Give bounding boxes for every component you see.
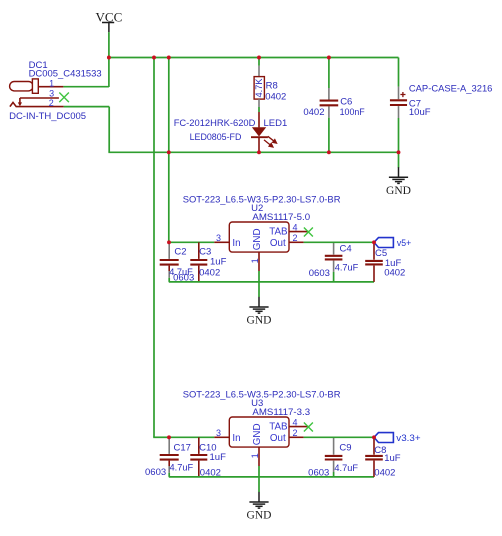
wire R8 to LED1 (258, 107, 260, 112)
wire VCC branch corner to U3 input (153, 436, 169, 438)
svg-text:3: 3 (216, 428, 221, 438)
svg-text:Out: Out (270, 238, 286, 249)
power flag VCC (96, 9, 123, 32)
svg-text:TAB: TAB (269, 422, 288, 433)
svg-text:0402: 0402 (303, 107, 324, 118)
svg-text:GND: GND (386, 185, 411, 197)
capacitor C17 (168, 439, 170, 477)
wire pin1 to ground U3 (258, 466, 260, 492)
wire top VCC bus (108, 57, 399, 59)
node bottom bus x169 (167, 150, 171, 154)
svg-text:TAB: TAB (269, 227, 288, 238)
svg-text:1: 1 (49, 78, 54, 88)
svg-text:AMS1117-5.0: AMS1117-5.0 (252, 212, 310, 223)
wire VCC branch to U2 input (168, 58, 170, 243)
pin 3 DC1 (20, 97, 59, 99)
capacitor C9 (333, 437, 335, 477)
svg-text:0402: 0402 (199, 268, 220, 279)
ground GND U2 (249, 297, 268, 313)
capacitor C4 (333, 242, 335, 282)
svg-text:2: 2 (49, 98, 54, 108)
wire bottom bus (108, 151, 398, 153)
wire pin1 to ground U2 (258, 271, 260, 297)
svg-text:0402: 0402 (200, 467, 221, 478)
svg-text:10uF: 10uF (409, 107, 431, 118)
svg-text:0603: 0603 (145, 467, 166, 478)
wire C7 to ground (398, 152, 400, 167)
node VCC bus left (107, 56, 111, 60)
node input U3 (167, 435, 171, 439)
svg-text:1uF: 1uF (210, 452, 227, 463)
capacitor C7 polarized (398, 58, 400, 153)
node VCC bus C6 (327, 56, 331, 60)
wire ground rail U2 (169, 281, 374, 283)
ground GND U3 (249, 492, 268, 508)
pin 3 In U3 (214, 436, 229, 438)
voltage regulator U3 body (229, 417, 289, 447)
pin 2 DC1 sleeve (10, 102, 64, 106)
pin 4 TAB U3 (289, 426, 308, 428)
svg-text:LED1: LED1 (264, 118, 288, 129)
pin 2 Out U2 (289, 241, 304, 243)
net flag v3.3+ (374, 433, 393, 443)
node VCC bus branch 1 (152, 56, 156, 60)
svg-text:GND: GND (252, 423, 263, 445)
wire input rail U3 (169, 436, 214, 438)
pin 1 DC1 (38, 86, 63, 88)
svg-text:3: 3 (216, 233, 221, 243)
capacitor C8 (373, 439, 375, 477)
svg-text:GND: GND (247, 510, 272, 522)
LED LED1 (251, 112, 268, 152)
ground GND top (389, 167, 408, 183)
svg-text:R8: R8 (266, 80, 278, 91)
wire VCC vertical (108, 32, 110, 87)
switch arm DC1 (19, 98, 21, 103)
svg-text:4.7uF: 4.7uF (335, 263, 359, 274)
svg-text:0603: 0603 (308, 467, 329, 478)
node bottom bus C7 (397, 150, 401, 154)
node output U2 (372, 240, 376, 244)
wire output U3 (304, 436, 374, 438)
svg-text:v3.3+: v3.3+ (396, 433, 421, 444)
no-connect X pin 4 U3 (304, 423, 313, 432)
capacitor C2 (168, 244, 170, 282)
svg-text:1: 1 (250, 258, 260, 263)
light arrows LED1 (264, 136, 277, 147)
capacitor C10 (198, 437, 200, 477)
svg-text:C4: C4 (340, 243, 352, 254)
svg-text:4.7uF: 4.7uF (170, 462, 194, 473)
pin 1 GND U3 (258, 447, 260, 466)
wire pin2 right (64, 106, 110, 108)
svg-text:C2: C2 (174, 246, 186, 257)
svg-text:2: 2 (292, 428, 297, 438)
capacitor C3 (198, 242, 200, 282)
svg-text:0402: 0402 (374, 468, 395, 479)
node bottom bus C6 (327, 150, 331, 154)
wire pin1 to VCC (63, 86, 109, 88)
pin 2 Out U3 (289, 436, 304, 438)
plus sign C7 (400, 92, 405, 97)
svg-text:C9: C9 (339, 443, 351, 454)
svg-text:Out: Out (270, 433, 286, 444)
svg-text:100nF: 100nF (340, 107, 365, 118)
svg-text:In: In (232, 433, 240, 444)
svg-text:4: 4 (292, 417, 297, 427)
no-connect X pin 4 U2 (304, 228, 313, 237)
wire VCC branch to U3 input (153, 58, 155, 438)
svg-text:0603: 0603 (173, 272, 194, 283)
no-connect X pin 3 DC1 (59, 93, 69, 103)
svg-text:0402: 0402 (265, 91, 286, 102)
svg-text:2: 2 (292, 233, 297, 243)
svg-text:DC005_C431533: DC005_C431533 (29, 69, 102, 80)
capacitor C6 (328, 58, 330, 153)
pin 3 In U2 (214, 241, 229, 243)
svg-text:1: 1 (250, 453, 260, 458)
svg-text:1uF: 1uF (210, 257, 227, 268)
node VCC bus R8 (257, 56, 261, 60)
capacitor C5 (373, 244, 375, 282)
svg-text:CAP-CASE-A_3216: CAP-CASE-A_3216 (409, 83, 493, 94)
wire input rail U2 (169, 241, 214, 243)
wire output U2 (304, 241, 374, 243)
svg-text:0402: 0402 (384, 268, 405, 279)
svg-text:In: In (232, 238, 240, 249)
svg-text:3: 3 (49, 89, 54, 99)
svg-text:4.7K: 4.7K (254, 78, 264, 98)
node VCC bus branch 2 (167, 56, 171, 60)
voltage regulator U2 body (229, 222, 289, 252)
svg-text:GND: GND (252, 228, 263, 250)
svg-text:AMS1117-3.3: AMS1117-3.3 (252, 407, 310, 418)
svg-text:0603: 0603 (309, 268, 330, 279)
connector DC1 barrel jack (10, 79, 39, 93)
svg-text:FC-2012HRK-620D: FC-2012HRK-620D (174, 118, 256, 129)
svg-text:1uF: 1uF (384, 453, 401, 464)
pin 4 TAB U2 (289, 231, 308, 233)
node output U3 (372, 435, 376, 439)
node bottom bus LED (257, 150, 261, 154)
svg-text:4.7uF: 4.7uF (334, 463, 358, 474)
svg-text:DC-IN-TH_DC005: DC-IN-TH_DC005 (9, 111, 86, 122)
svg-text:4: 4 (292, 222, 297, 232)
svg-text:GND: GND (247, 315, 272, 327)
wire ground rail U3 (169, 476, 374, 478)
svg-text:v5+: v5+ (397, 238, 412, 249)
node input U2 (167, 240, 171, 244)
svg-text:C17: C17 (174, 442, 191, 453)
pin 1 GND U2 (258, 252, 260, 271)
svg-text:LED0805-FD: LED0805-FD (190, 132, 242, 143)
resistor R8 (254, 58, 264, 108)
wire pin2 down (108, 107, 110, 153)
net flag v5+ (374, 238, 393, 248)
